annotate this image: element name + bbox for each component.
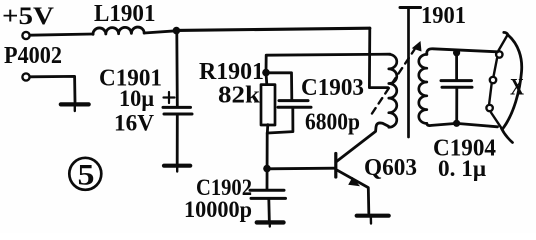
emitter arrowhead [348,177,360,186]
terminal +5V [22,32,29,39]
inductor L1901 [93,27,144,34]
adjustment arrow (dashed) [372,50,415,114]
C1901 polarity plus [164,92,175,103]
node B junction dot [262,69,270,77]
crystal X left loopy line [489,35,507,128]
svg-text:5: 5 [78,159,95,192]
wire node A down to C1901 [175,31,178,106]
svg-text:16V: 16V [114,111,154,136]
svg-text:C1903: C1903 [301,75,364,101]
svg-text:+5V: +5V [2,3,54,30]
svg-text:X: X [510,75,524,100]
wire R bottom to node C [266,133,269,189]
svg-text:R1901: R1901 [199,59,264,85]
capacitor C1904 [455,53,458,80]
ground (C1901) [164,164,190,168]
wire +5V to L1901 [30,34,93,35]
transistor Q603 base bar [334,154,337,178]
ground (C1902) [257,220,284,224]
node C junction dot [263,165,271,173]
transformer secondary winding [419,54,427,123]
wire L1901 to node A [144,31,176,33]
wire node B to C1903 [266,73,292,100]
terminal P4002 [22,73,29,80]
transformer primary winding [389,54,397,127]
transistor Q603 collector [337,123,389,162]
base wire node C to Q603 [267,167,336,170]
capacitor C1902 [250,189,284,192]
ground (P4002) [61,102,89,106]
svg-text:10μ: 10μ [119,86,154,111]
wire down to primary tap [369,28,388,87]
resistor R1901 [261,85,275,125]
circled 5 [69,158,101,190]
crystal X bottom tail [502,129,513,143]
secondary bottom lead / bottom rail [427,123,498,126]
node A junction dot [173,27,181,35]
wire node B up and right to primary top [266,54,390,72]
capacitor C1903 [279,99,308,102]
wire P4002 to ground [30,76,75,101]
svg-text:Q603: Q603 [364,155,417,181]
transistor Q603 emitter [337,170,369,213]
crystal X loop knots [496,51,502,57]
ground (Q603 emitter) [357,214,389,218]
crystal X right arc [503,32,522,129]
svg-text:6800p: 6800p [305,110,360,136]
svg-text:L1901: L1901 [94,1,156,27]
capacitor C1901 [163,106,191,109]
svg-text:P4002: P4002 [4,43,62,69]
wire node A to top right corner [176,28,369,30]
secondary top lead [427,49,498,55]
svg-text:10000p: 10000p [184,197,252,222]
transformer core [407,8,410,138]
svg-text:82k: 82k [218,83,261,109]
svg-text:0. 1μ: 0. 1μ [438,156,486,181]
node E junction dot [453,120,460,127]
svg-text:1901: 1901 [421,3,466,29]
node D junction dot [453,49,460,56]
